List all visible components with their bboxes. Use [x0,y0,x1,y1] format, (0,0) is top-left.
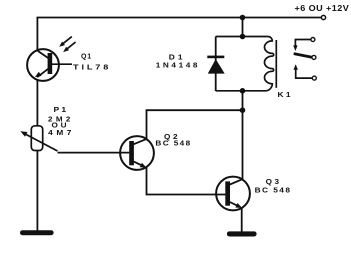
wire: Q1 emitter down to potentiometer P1 [36,80,38,126]
svg-text:+6 OU +12V: +6 OU +12V [295,3,350,13]
svg-text:OU: OU [52,123,70,130]
junction: relay top node [240,34,246,40]
junction: supply rail to relay branch [240,15,246,21]
svg-text:BC 548: BC 548 [255,187,292,194]
potentiometer P1 wiper arrow [20,131,57,151]
svg-text:1N4148: 1N4148 [156,63,200,70]
junction: Q2 collector branch node [240,107,246,113]
relay K1 coil with parallel wiring to D1 [216,37,277,91]
transistor Q2 BC548 [120,136,154,170]
relay contact: common terminal [293,38,315,52]
svg-text:TIL78: TIL78 [73,64,111,71]
svg-text:K1: K1 [278,92,293,99]
svg-text:P1: P1 [54,107,69,114]
wire: Q2 emitter to Q3 base [147,168,226,195]
svg-text:BC 548: BC 548 [155,140,191,147]
svg-text:4M7: 4M7 [48,130,75,137]
potentiometer P1 body [31,126,42,151]
wire: P1 bottom to ground [36,151,38,231]
wire: positive supply rail from Q1 collector to +V terminal [37,18,321,51]
ground: left ground symbol [20,230,54,235]
svg-text:Q3: Q3 [266,179,282,186]
relay contact: armature blade [294,54,316,60]
ground: right ground symbol [227,231,257,236]
svg-text:Q1: Q1 [81,53,92,60]
junction: relay bottom node [240,88,246,94]
wire: branch from node to Q2 collector [147,110,243,139]
svg-text:D1: D1 [169,55,186,62]
terminal: +6/+12V supply [321,15,325,19]
transistor Q1 TIL78 phototransistor [27,49,72,81]
wire: P1 wiper to Q2 base [58,152,130,154]
wire: supply rail down to relay/diode top [242,18,244,37]
transistor Q3 BC548 [216,177,250,211]
wire: Q3 emitter to ground [241,208,243,231]
light arrows into Q1 [59,37,75,53]
diode D1 1N4148 (cathode up), vertical line [207,37,224,92]
wire: relay bottom down to Q3 collector [242,91,244,179]
relay contact: normally-open terminal [294,64,317,80]
